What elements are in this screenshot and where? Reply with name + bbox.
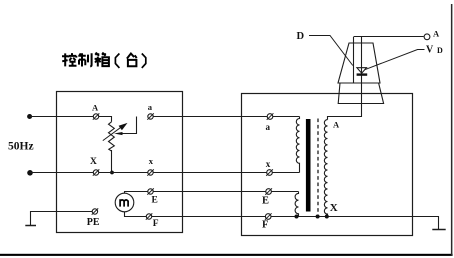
frame bottom <box>0 254 453 256</box>
terminal F (transformer) <box>265 213 272 220</box>
wire X to x <box>99 172 148 174</box>
frame right <box>451 4 453 255</box>
wire E inter-box <box>125 192 299 194</box>
svg-text:E: E <box>262 196 269 207</box>
svg-text:D: D <box>437 46 443 55</box>
node line-in bottom <box>27 170 33 176</box>
svg-text:X: X <box>90 157 97 167</box>
junction excitation-F <box>295 215 299 219</box>
ground left <box>25 225 36 227</box>
control box enclosure <box>57 92 183 233</box>
wire x inter-box <box>153 172 272 174</box>
wire variac bottom to X node <box>111 150 113 173</box>
bushing inner conductor <box>353 37 355 83</box>
svg-text:X: X <box>330 202 338 214</box>
terminal x (control box) <box>147 169 154 175</box>
ground right <box>432 229 445 231</box>
diode VD <box>357 68 368 76</box>
wire PE to ground <box>31 212 93 226</box>
bushing lower shell <box>338 83 383 104</box>
title 控制箱（台） <box>62 52 146 68</box>
svg-text:a: a <box>266 122 271 132</box>
junction shield-ground wire <box>316 215 320 219</box>
transformer T2 secondary winding <box>324 120 327 217</box>
svg-text:A: A <box>433 29 440 39</box>
terminal E (transformer) <box>265 188 272 195</box>
transformer T2 primary winding <box>296 117 299 173</box>
terminal PE <box>92 208 99 214</box>
svg-text:V: V <box>426 44 434 55</box>
svg-text:PE: PE <box>87 217 100 228</box>
transformer shield (dashed) <box>317 119 319 216</box>
bushing top wire to terminal A <box>354 36 424 38</box>
svg-text:x: x <box>149 156 154 166</box>
terminal A (HV output) <box>424 34 430 40</box>
transformer box enclosure <box>242 94 413 236</box>
terminal a (control box) <box>147 113 154 119</box>
svg-text:F: F <box>153 219 159 229</box>
svg-text:x: x <box>266 159 271 169</box>
HV lead wire <box>328 37 362 120</box>
junction secondary-ground wire <box>325 215 329 219</box>
terminal X (control box) <box>93 169 100 175</box>
svg-text:E: E <box>152 196 158 206</box>
bushing upper shell <box>338 43 380 83</box>
node line-in top <box>27 114 32 119</box>
svg-text:A: A <box>333 119 340 129</box>
wire A to variac <box>99 117 112 122</box>
wire primary bottom to x <box>272 172 300 174</box>
terminal E (control box) <box>147 188 154 194</box>
variac adjust arrow <box>103 127 121 140</box>
junction variac-X <box>110 171 114 175</box>
wire X to right ground <box>412 217 439 230</box>
svg-text:a: a <box>148 102 153 112</box>
wire F inter-box <box>125 212 413 217</box>
svg-text:50Hz: 50Hz <box>8 141 34 153</box>
svg-text:D: D <box>297 31 305 42</box>
terminal x (transformer) <box>266 169 273 176</box>
meter PV <box>115 193 134 212</box>
variac T1 winding <box>109 122 115 151</box>
terminal a (transformer) <box>267 113 274 120</box>
transformer T2 core <box>306 119 311 212</box>
terminal A <box>93 113 100 119</box>
label D pointer <box>309 36 353 66</box>
svg-text:F: F <box>262 220 268 231</box>
wire input top <box>30 116 94 118</box>
wire a to E (inter-box) <box>153 116 299 118</box>
wire input bottom <box>30 172 93 174</box>
terminal F (control box) <box>146 213 153 219</box>
transformer T2 excitation winding <box>295 192 298 217</box>
variac wiper arrow <box>114 132 123 135</box>
svg-text:A: A <box>92 103 99 113</box>
label VD pointer <box>365 50 425 70</box>
wire wiper to terminal a <box>122 117 137 134</box>
